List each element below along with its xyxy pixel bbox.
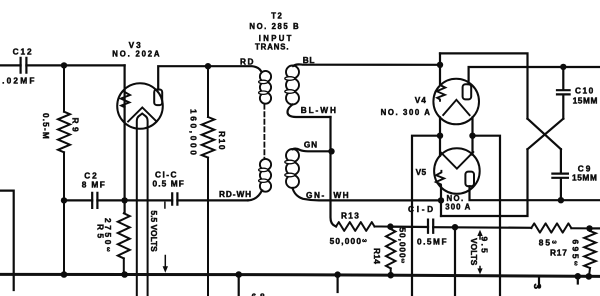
svg-text:T2: T2	[271, 11, 283, 20]
wire input line top-left	[0, 64, 125, 66]
wire X left leg to V5 grid	[441, 149, 528, 216]
wire cross-coupling C9 top path	[440, 53, 528, 118]
node bus tap 337	[334, 271, 341, 278]
wire filament tap right	[473, 136, 501, 296]
node bus R5	[121, 271, 128, 278]
wire BL lead	[293, 64, 440, 66]
transformer T2 secondary top winding	[285, 66, 299, 105]
wire RD-WH curve	[248, 190, 262, 200]
wire BL stub up	[439, 53, 441, 64]
svg-text:VOLTS: VOLTS	[469, 238, 479, 266]
tube V5	[434, 148, 480, 194]
svg-text:5.5 VOLTS: 5.5 VOLTS	[149, 211, 159, 253]
svg-text:6.8: 6.8	[252, 292, 266, 296]
resistor R10	[189, 66, 228, 296]
node R17 right	[586, 225, 592, 231]
svg-text:9.5: 9.5	[480, 237, 490, 256]
svg-text:R9: R9	[70, 118, 80, 136]
wire secondary centre tap	[331, 117, 337, 227]
svg-text:0.5 MF: 0.5 MF	[153, 179, 185, 189]
wire ground bus	[0, 274, 600, 276]
capacitor C1-C	[153, 170, 185, 205]
resistor R14	[372, 227, 408, 276]
wire filament tap left	[412, 136, 440, 296]
svg-text:GN- WH: GN- WH	[306, 190, 350, 200]
transformer T2 primary top winding	[259, 71, 272, 104]
resistor R17	[531, 223, 589, 257]
resistor R13	[330, 211, 391, 246]
resistor 695 ohm	[571, 228, 596, 276]
wire GN lead	[293, 149, 332, 152]
svg-text:CI-D: CI-D	[408, 204, 436, 214]
node bus stub 578	[575, 273, 582, 280]
svg-text:TRANS.: TRANS.	[255, 43, 289, 52]
svg-text:.02MF: .02MF	[2, 76, 37, 86]
node centre tap	[328, 148, 334, 154]
svg-text:0.5MF: 0.5MF	[417, 237, 448, 247]
wire tap 539 with label 3	[531, 278, 542, 290]
svg-text:R10: R10	[217, 131, 227, 151]
transformer T2 core dashed	[263, 105, 265, 160]
node filament left	[437, 133, 443, 139]
wire bus tap 238 down	[238, 275, 240, 296]
capacitor C1-D	[408, 204, 448, 246]
svg-text:C10: C10	[575, 86, 595, 96]
node filament right	[469, 133, 475, 139]
wire GN-WH lead	[293, 188, 442, 200]
wire bias rail	[390, 227, 531, 228]
svg-text:R14: R14	[372, 248, 382, 264]
svg-text:V3: V3	[129, 40, 143, 50]
node C1-D right	[452, 224, 458, 230]
wire left edge stub	[0, 191, 14, 290]
wire V5 plate rail	[470, 186, 600, 200]
wire V3 grid line	[123, 65, 125, 213]
svg-text:NO. 285 B: NO. 285 B	[249, 22, 300, 31]
wire V3 plate to RD	[158, 66, 261, 89]
node C9 bottom	[558, 197, 564, 203]
node V5 grid / GN-WH	[438, 197, 444, 203]
capacitor C9	[552, 149, 597, 200]
svg-text:0.5-M: 0.5-M	[41, 113, 51, 140]
node bus R14	[387, 272, 394, 279]
svg-text:RD: RD	[240, 56, 255, 66]
svg-text:15MM: 15MM	[572, 173, 597, 183]
node bus tap 238	[235, 271, 242, 278]
svg-text:INPUT: INPUT	[259, 34, 294, 43]
svg-text:R13: R13	[341, 211, 360, 221]
node R9 / rail	[61, 197, 67, 203]
svg-text:3: 3	[531, 284, 542, 290]
node bus R9	[61, 271, 68, 278]
wire V4 grid lead	[439, 65, 441, 84]
svg-text:NO. 300 A: NO. 300 A	[381, 108, 432, 117]
svg-text:RD-WH: RD-WH	[219, 189, 252, 199]
svg-text:300 A: 300 A	[445, 203, 471, 212]
svg-text:R17: R17	[550, 248, 568, 258]
wire RD-WH rail	[64, 199, 248, 201]
node R10 top	[205, 63, 211, 69]
tube V3	[117, 83, 163, 129]
wire V5 grid lead down	[440, 187, 442, 217]
svg-text:BL: BL	[303, 55, 315, 65]
wire V4/V5 filament links	[440, 117, 473, 155]
wire V3 filament horn	[137, 114, 148, 296]
svg-text:V5: V5	[416, 167, 427, 177]
wire C1-D node down	[454, 227, 456, 296]
resistor R5	[96, 213, 130, 274]
svg-text:160,000: 160,000	[189, 109, 199, 157]
node R13/R14	[387, 223, 393, 229]
transformer T2 primary bottom winding	[259, 159, 272, 192]
svg-text:V4: V4	[415, 95, 427, 105]
annotation 9.5 volts	[469, 230, 490, 275]
wire bus tap 337 down	[337, 275, 339, 292]
annotation 5.5 volts	[149, 202, 168, 272]
node C10 tap	[560, 64, 566, 70]
svg-text:GN: GN	[304, 140, 318, 150]
tube V4	[433, 79, 479, 125]
node V4 grid / BL	[437, 62, 443, 68]
capacitor C12	[2, 46, 37, 85]
wire cross X	[528, 119, 564, 150]
wire bias rail to edge	[590, 227, 600, 229]
svg-text:15MM: 15MM	[573, 96, 598, 106]
node grid line / rail	[121, 197, 127, 203]
capacitor C10	[557, 67, 598, 119]
svg-text:NO. 202A: NO. 202A	[112, 50, 161, 59]
resistor R9	[41, 65, 80, 274]
node input / R9 top	[61, 62, 67, 68]
wire V4 plate to rail	[469, 67, 600, 84]
transformer T2 secondary bottom winding	[285, 149, 299, 188]
svg-text:BL-WH: BL-WH	[301, 105, 338, 115]
wire bus stub 578 down	[577, 276, 579, 283]
wire BL-WH lead	[288, 105, 331, 118]
svg-text:C12: C12	[13, 46, 34, 56]
svg-text:8 MF: 8 MF	[82, 180, 107, 190]
capacitor C2	[82, 170, 107, 208]
node bus 695	[586, 273, 593, 280]
